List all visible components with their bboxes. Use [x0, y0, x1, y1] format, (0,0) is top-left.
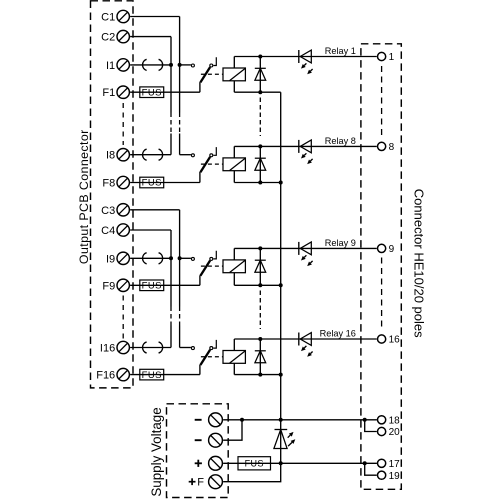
svg-text:F: F: [197, 477, 204, 489]
svg-text:FUS: FUS: [245, 458, 264, 468]
svg-text:C1: C1: [101, 12, 115, 24]
svg-text:FUS: FUS: [142, 87, 162, 98]
svg-text:C3: C3: [101, 205, 115, 217]
svg-text:I9: I9: [106, 253, 115, 265]
svg-text:C2: C2: [101, 32, 115, 44]
svg-text:Connector HE10/20 poles: Connector HE10/20 poles: [411, 189, 426, 338]
svg-text:I8: I8: [106, 150, 115, 162]
svg-text:Supply Voltage: Supply Voltage: [149, 407, 164, 496]
svg-text:FUS: FUS: [142, 281, 162, 292]
svg-text:F8: F8: [102, 178, 115, 190]
svg-text:Relay 8: Relay 8: [325, 136, 356, 146]
svg-text:1: 1: [389, 52, 395, 63]
svg-text:Relay 16: Relay 16: [320, 329, 356, 339]
svg-text:I1: I1: [106, 60, 115, 72]
svg-text:20: 20: [389, 427, 401, 438]
svg-text:FUS: FUS: [142, 178, 162, 189]
svg-text:19: 19: [389, 471, 401, 482]
svg-text:FUS: FUS: [142, 370, 162, 381]
svg-text:Output PCB Connector: Output PCB Connector: [77, 129, 91, 264]
svg-text:F9: F9: [102, 280, 115, 292]
svg-text:9: 9: [389, 244, 395, 255]
svg-text:F16: F16: [96, 370, 115, 382]
svg-text:I16: I16: [100, 343, 115, 355]
svg-text:C4: C4: [101, 225, 115, 237]
svg-text:Relay 1: Relay 1: [325, 46, 356, 56]
svg-text:8: 8: [389, 142, 395, 153]
svg-text:18: 18: [389, 415, 401, 426]
svg-text:Relay 9: Relay 9: [325, 238, 356, 248]
svg-text:16: 16: [389, 335, 401, 346]
svg-text:F1: F1: [102, 87, 115, 99]
svg-text:17: 17: [389, 459, 401, 470]
